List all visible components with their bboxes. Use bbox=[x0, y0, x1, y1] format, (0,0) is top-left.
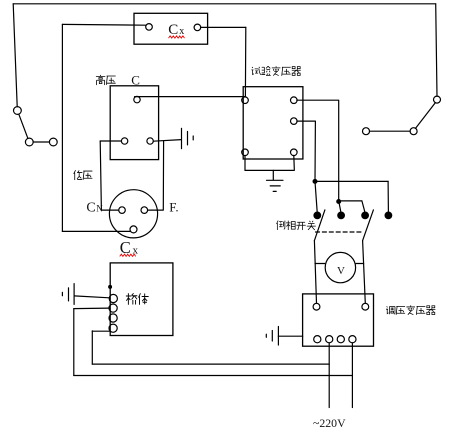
voltmeter circle bbox=[325, 252, 355, 282]
capacitor box Cx bbox=[134, 13, 208, 44]
test transformer box bbox=[243, 87, 303, 159]
terminal Reg top-left bbox=[313, 303, 320, 310]
wire LV left out bbox=[100, 140, 121, 142]
wire F riser bbox=[148, 141, 164, 211]
label CN bbox=[86, 200, 103, 215]
terminal CN bbox=[119, 207, 126, 214]
switch S2 open contact bbox=[363, 128, 370, 135]
svg-text:x: x bbox=[179, 26, 184, 37]
svg-text:C: C bbox=[131, 73, 140, 88]
label 桥体 bbox=[126, 293, 149, 304]
switch S1 open contact bbox=[49, 138, 57, 146]
HV tester box bbox=[110, 86, 158, 160]
ground G3 bbox=[267, 180, 284, 191]
wire top bus bbox=[13, 3, 436, 5]
terminal F bbox=[141, 207, 148, 214]
wire Cx box left to left drop bbox=[62, 23, 145, 26]
wire mains right bbox=[351, 343, 353, 408]
label 倒相开关 bbox=[277, 221, 316, 230]
terminal TT top-right bbox=[291, 97, 298, 104]
phase switch dot 4 bbox=[385, 212, 392, 219]
switch S1 pivot contact bbox=[25, 138, 33, 146]
wire TT bottom-left down bbox=[244, 155, 246, 170]
coil turn 3 bbox=[109, 314, 117, 322]
switch S1 blade bbox=[19, 114, 28, 138]
svg-text:N: N bbox=[96, 204, 103, 214]
wire down mid bbox=[91, 331, 93, 364]
wire left drop bbox=[13, 4, 17, 107]
phase switch blade left bbox=[314, 210, 325, 241]
wire HV top to test transformer bbox=[135, 96, 246, 98]
wire S2 pivot to contact bbox=[370, 130, 411, 132]
terminal Reg tap 2 bbox=[326, 336, 333, 343]
label Cx bushing bbox=[120, 238, 139, 257]
wire left vertical bbox=[61, 24, 63, 231]
wire TT bottom join bbox=[245, 169, 294, 171]
wire bottom long to regulator bbox=[74, 375, 353, 377]
phase switch dot 2 bbox=[338, 212, 345, 219]
junction dot J2 bbox=[337, 200, 341, 204]
terminal TT mid-right bbox=[291, 118, 298, 125]
bushing body circle bbox=[109, 190, 157, 238]
terminal LV left bbox=[121, 138, 127, 144]
wire J2 to dot2 bbox=[339, 201, 341, 212]
bridge body box bbox=[110, 263, 173, 336]
label 低压 bbox=[74, 170, 93, 180]
wire LV right to ground bbox=[153, 140, 181, 142]
terminal TT bottom-right bbox=[291, 149, 298, 156]
svg-text:V: V bbox=[337, 265, 345, 277]
terminal Reg top-right bbox=[362, 303, 369, 310]
terminal Cx box right bbox=[194, 24, 201, 31]
terminal Cx box left bbox=[146, 24, 153, 31]
ground G1 bbox=[182, 128, 194, 148]
label Cx top bbox=[168, 22, 184, 38]
phase switch dot 1 bbox=[314, 212, 321, 219]
terminal LV right bbox=[147, 138, 153, 144]
wire down to CN bbox=[100, 141, 101, 210]
switch S2 top contact bbox=[434, 96, 441, 103]
terminal Reg tap 1 bbox=[314, 336, 321, 343]
junction dot bridge top bbox=[109, 286, 112, 289]
wire TT bottom-right down bbox=[293, 155, 296, 169]
switch S2 pivot contact bbox=[410, 128, 417, 135]
wire right drop bbox=[436, 4, 437, 96]
wire J2 branch right bbox=[339, 200, 362, 202]
wire ground G4 to regulator bbox=[278, 335, 302, 337]
wire branch down to dot4 bbox=[387, 181, 389, 212]
svg-text:F.: F. bbox=[169, 199, 178, 214]
wire J1 branch right bbox=[315, 180, 388, 182]
wire TT mid-right to phase switch bbox=[297, 121, 316, 181]
label 高压 bbox=[96, 75, 116, 85]
wire blade right down to regulator bbox=[363, 241, 366, 304]
wire ground G2 to coil 1 bbox=[74, 296, 109, 298]
terminal Reg tap 4 bbox=[349, 336, 356, 343]
wire coil4 stub bbox=[92, 330, 110, 332]
coil turn 4 bbox=[109, 324, 117, 332]
wire coil2 left bbox=[74, 307, 109, 310]
junction dot J1 bbox=[313, 180, 317, 184]
wire mains left bbox=[328, 343, 330, 408]
wire long to regulator left tap bbox=[92, 363, 329, 365]
svg-text:~220V: ~220V bbox=[313, 416, 346, 430]
wire J1 to dot1 bbox=[315, 181, 317, 212]
svg-text:C: C bbox=[86, 200, 95, 215]
coil turn 2 bbox=[109, 304, 117, 312]
terminal bushing bottom bbox=[130, 226, 137, 233]
wire S1 pivot to contact bbox=[33, 141, 49, 143]
wire to CN terminal bbox=[101, 209, 118, 211]
terminal HV top bbox=[134, 96, 140, 102]
phase switch link dashed bbox=[316, 231, 363, 233]
ground G4 bbox=[266, 327, 278, 346]
terminal TT bottom-left bbox=[242, 149, 249, 156]
wire down to test transformer bbox=[244, 27, 246, 96]
label 调压变压器 bbox=[386, 305, 435, 315]
voltmeter stub left bbox=[315, 263, 325, 265]
wire branch down to dot3 bbox=[362, 201, 365, 212]
terminal Reg tap 3 bbox=[337, 336, 344, 343]
switch S2 blade bbox=[415, 103, 435, 129]
regulator box bbox=[303, 294, 374, 346]
coil turn 1 bbox=[109, 294, 117, 302]
phase switch blade right bbox=[363, 210, 374, 241]
terminal TT top-left bbox=[242, 97, 249, 104]
wire blade left down to regulator bbox=[314, 241, 316, 304]
wire to bushing bottom terminal bbox=[62, 230, 130, 232]
switch S1 top contact bbox=[14, 107, 22, 115]
voltmeter stub right bbox=[356, 263, 364, 265]
label 试验变压器 bbox=[251, 66, 300, 76]
wire Cx box right bbox=[201, 26, 246, 28]
wire ground stub bbox=[272, 170, 274, 180]
ground G2 bbox=[62, 284, 74, 305]
wire down left long bbox=[73, 309, 75, 376]
phase switch dot 3 bbox=[362, 212, 369, 219]
wire TT top-right to phase switch bbox=[297, 100, 339, 201]
